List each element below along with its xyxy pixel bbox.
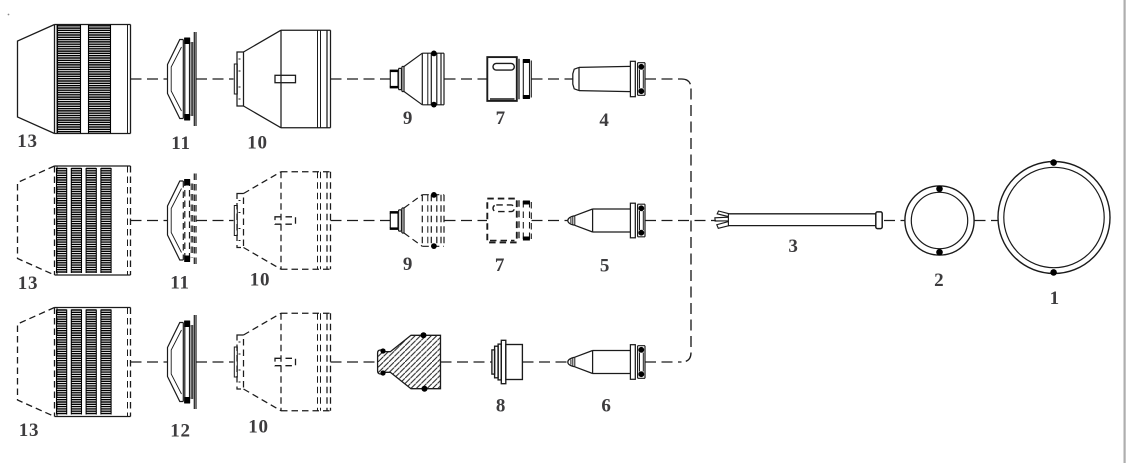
nozzle 9 (row 2, phantom)	[390, 192, 444, 249]
swirl ring 11 (row 1)	[168, 32, 197, 126]
svg-text:7: 7	[496, 108, 506, 129]
svg-text:7: 7	[495, 255, 505, 276]
centerline row 2	[131, 220, 998, 222]
svg-text:13: 13	[19, 420, 40, 441]
swirl ring 12 (row 3)	[168, 315, 197, 409]
bushing 8 (row 3)	[492, 340, 522, 383]
retaining cap 10 (row 2, phantom)	[234, 172, 330, 270]
electrode 4 (row 1)	[573, 61, 645, 96]
connector elbow bottom	[682, 353, 692, 363]
swirl ring 11 (row 2, phantom)	[168, 174, 197, 268]
spring tool 3 tube body	[728, 214, 876, 226]
svg-text:1: 1	[1050, 288, 1060, 309]
diffuser 7 (row 2, phantom)	[487, 199, 531, 243]
svg-text:3: 3	[788, 236, 798, 257]
o-ring 1	[998, 159, 1110, 275]
svg-text:13: 13	[18, 273, 39, 294]
page edge rule (right)	[1124, 0, 1126, 463]
svg-text:9: 9	[403, 108, 413, 129]
shielded nozzle, sectioned hatched (row 3)	[378, 332, 441, 391]
centerline row 3	[131, 361, 682, 363]
svg-text:8: 8	[496, 396, 506, 417]
retaining cap 10 (row 3, phantom)	[234, 313, 330, 411]
retaining cap 10 (row 1)	[234, 30, 330, 128]
stray speck top-left	[8, 14, 10, 16]
svg-text:6: 6	[601, 396, 611, 417]
shield cap 13 (row 3, phantom)	[18, 308, 131, 417]
spring tool 3 end cap	[876, 212, 882, 229]
o-ring 2	[905, 186, 974, 256]
svg-text:10: 10	[250, 270, 271, 291]
svg-text:2: 2	[934, 270, 944, 291]
spring tool 3 forked tip	[715, 211, 729, 228]
svg-text:10: 10	[247, 133, 268, 154]
electrode 5 (row 2)	[568, 203, 645, 238]
centerline row 1	[131, 78, 682, 80]
shield cap 13 (row 1)	[18, 25, 131, 134]
svg-text:10: 10	[248, 416, 269, 437]
svg-text:12: 12	[170, 421, 191, 442]
svg-text:9: 9	[403, 254, 413, 275]
svg-text:11: 11	[170, 273, 190, 294]
nozzle 9 (row 1)	[390, 51, 444, 108]
electrode 6 (row 3)	[568, 345, 645, 380]
svg-text:11: 11	[171, 133, 191, 154]
svg-text:4: 4	[599, 110, 609, 131]
shield cap 13 (row 2, phantom)	[18, 166, 131, 275]
connector elbow top	[682, 79, 692, 89]
svg-text:13: 13	[17, 131, 38, 152]
connector vertical bus	[690, 89, 692, 353]
svg-text:5: 5	[600, 256, 610, 277]
diffuser 7 (row 1)	[487, 57, 531, 101]
